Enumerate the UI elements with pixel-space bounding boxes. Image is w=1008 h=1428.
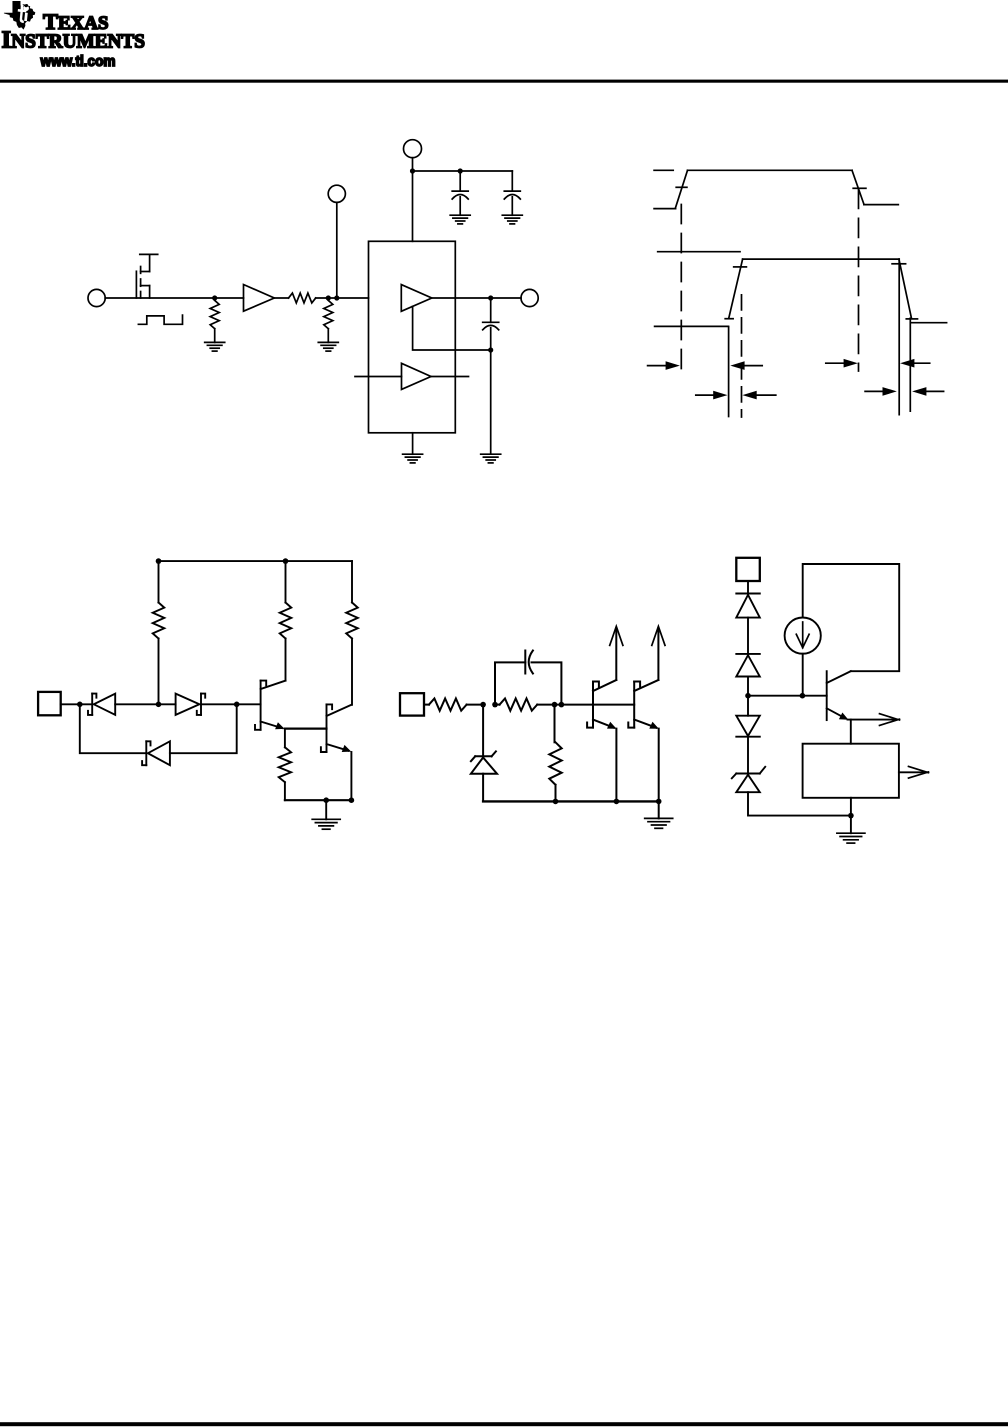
wire VCC rail — [413, 170, 513, 172]
node K junction — [234, 702, 240, 708]
wire emitter to box — [848, 720, 851, 744]
wire pad to D1 — [61, 703, 92, 705]
solid reference line 1 — [728, 327, 730, 417]
node T junction — [656, 799, 662, 805]
transistor Q5 schottky npn — [628, 680, 659, 801]
input pad fig4 — [400, 693, 424, 715]
node F junction — [488, 347, 493, 352]
resistor R6 — [346, 561, 358, 705]
TI logo mark — [4, 1, 35, 30]
zener diode D8 — [732, 767, 851, 816]
diode D7 — [736, 696, 760, 774]
buffer A upper — [401, 285, 432, 312]
node VCC junction — [410, 168, 415, 173]
buffer B lower — [355, 363, 469, 389]
tick input falling 50% — [853, 187, 866, 189]
wire box ground pin — [412, 433, 414, 454]
diode D2 schottky — [159, 694, 237, 715]
dashed reference line 3 — [741, 295, 743, 417]
node R junction — [553, 799, 559, 805]
node C junction — [334, 295, 339, 300]
solid reference line 3 — [909, 318, 911, 411]
TI logo wordmark INSTRUMENTS — [2, 27, 146, 54]
tick output fall end — [906, 318, 917, 320]
node W junction — [848, 813, 854, 819]
node M junction — [349, 797, 355, 803]
ground for C3 — [481, 454, 501, 463]
transistor Q1 pulse-gen MOSFET — [136, 254, 157, 298]
buffer U1 — [244, 285, 289, 312]
transistor Q3 schottky npn — [321, 704, 352, 800]
DUT box U2 — [369, 241, 456, 432]
waveform input — [654, 170, 898, 208]
arrow output 1 — [851, 714, 900, 726]
wire node K to Q2 base — [237, 703, 261, 705]
arrow tPHL left — [826, 359, 858, 368]
arrow tf left — [865, 387, 897, 396]
ground fig5 — [837, 833, 865, 843]
waveform output — [655, 259, 947, 326]
ground for R1 — [205, 342, 225, 351]
node L junction — [323, 797, 329, 803]
node H junction — [283, 558, 289, 564]
diode D1 schottky — [88, 694, 159, 715]
zener diode D4 — [471, 705, 497, 802]
tick output rise end — [734, 266, 747, 268]
resistor R7 — [279, 729, 291, 801]
node Q junction — [559, 702, 565, 708]
node O junction — [492, 702, 498, 708]
ground for C2 — [502, 215, 522, 224]
input pad fig3 — [38, 692, 61, 715]
arrow tr right — [742, 391, 775, 400]
wire base node fig4 — [561, 704, 634, 706]
current source I1 — [785, 618, 821, 654]
tick input rising 50% — [676, 186, 687, 188]
wire VCC to box — [412, 171, 414, 241]
wire input to MOSFET — [105, 297, 243, 299]
terminal circle VCC — [404, 140, 422, 171]
solid reference line 2 — [898, 259, 900, 415]
node D junction — [458, 168, 463, 173]
diode D5 — [736, 581, 760, 654]
arrow tr left — [696, 391, 728, 400]
transistor Q6 npn — [827, 671, 851, 720]
node V junction — [800, 693, 806, 699]
tick output fall start — [892, 263, 906, 265]
ground for C1 — [450, 215, 470, 224]
arrow Q5 collector up — [652, 626, 665, 680]
arrow tf right — [912, 387, 944, 396]
node N junction — [480, 702, 486, 708]
wire box to ground — [850, 798, 852, 833]
wire Q2 emitter node — [285, 727, 327, 729]
node J junction — [156, 702, 162, 708]
capacitor C2 — [504, 171, 520, 215]
node U junction — [745, 693, 751, 699]
diode D6 — [736, 654, 760, 696]
resistor R8 — [424, 699, 483, 711]
node P junction — [552, 702, 558, 708]
input terminal circle — [88, 289, 105, 306]
node I junction — [77, 702, 83, 708]
waveform input high reference — [654, 169, 673, 171]
wire feedback — [413, 306, 491, 350]
svg-text:www.ti.com: www.ti.com — [40, 54, 116, 70]
resistor R10 — [549, 705, 561, 802]
arrow tPLH right — [730, 361, 762, 370]
node A junction — [212, 295, 217, 300]
svg-text:I: I — [2, 27, 12, 54]
output terminal circle — [521, 289, 538, 306]
dashed reference line 1 — [680, 205, 682, 374]
node B junction — [326, 295, 331, 300]
top rule — [0, 80, 1008, 83]
pulse waveform symbol — [138, 315, 182, 324]
wire R2 to box — [316, 297, 369, 299]
wire current source loop — [803, 564, 900, 696]
arrow tPLH left — [648, 361, 680, 370]
ground fig4 — [645, 801, 673, 828]
resistor R5 — [280, 561, 292, 681]
resistor R9 — [495, 699, 561, 711]
wire bottom rail fig4 — [483, 800, 659, 802]
capacitor C4 feedback — [495, 651, 561, 705]
ground for box — [403, 454, 423, 463]
input pad fig5 — [736, 558, 760, 581]
diode D3 schottky feedback — [80, 704, 237, 765]
transistor Q4 schottky npn — [587, 680, 616, 801]
node E junction — [488, 295, 493, 300]
arrow output 2 — [899, 766, 929, 778]
svg-text:NSTRUMENTS: NSTRUMENTS — [11, 31, 145, 53]
wire base fig5 — [748, 695, 827, 697]
tick output rise start — [725, 318, 733, 320]
waveform output mid reference — [658, 251, 740, 253]
arrow tPHL right — [900, 359, 930, 368]
box fig5 — [803, 744, 899, 798]
capacitor C3 — [483, 298, 499, 454]
wire output — [432, 297, 521, 299]
resistor R2 — [289, 293, 316, 303]
resistor R4 — [153, 561, 165, 704]
resistor R1 — [210, 300, 219, 342]
node G junction — [156, 558, 162, 564]
node S junction — [614, 799, 620, 805]
wire top rail fig3 — [159, 560, 353, 562]
capacitor C1 — [452, 171, 468, 215]
transistor Q2 schottky npn — [255, 681, 286, 730]
bottom rule — [0, 1422, 1008, 1426]
terminal circle VREG — [328, 185, 345, 298]
arrow Q4 collector up — [610, 626, 623, 680]
wire bottom fig3 — [285, 799, 352, 801]
resistor R3 — [324, 300, 333, 342]
ground fig3 — [312, 800, 340, 829]
ground for R3 — [318, 342, 338, 351]
dashed reference line 2 — [858, 189, 860, 371]
